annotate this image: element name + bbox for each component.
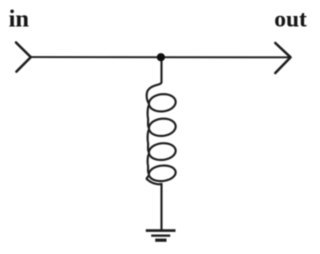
node junction dot: [157, 53, 165, 61]
svg-text:out: out: [274, 7, 307, 33]
wire node to inductor: [160, 57, 162, 82]
inductor L1: [147, 82, 176, 184]
wire in-out: [31, 56, 291, 58]
svg-text:in: in: [9, 6, 30, 33]
wire inductor to ground: [160, 184, 162, 230]
port out arrowhead: [275, 43, 290, 73]
port in chevron: [16, 43, 31, 72]
ground: [146, 231, 176, 241]
